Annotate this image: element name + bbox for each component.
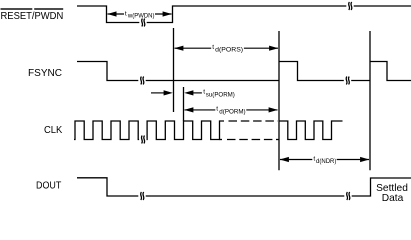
wire CLK dashed bottom: [227, 139, 276, 141]
wire RESET/PWDN waveform: [77, 6, 411, 23]
svg-text:d(NDR): d(NDR): [316, 158, 336, 165]
wire DOUT waveform: [77, 178, 411, 196]
break on FSYNC low line right: [344, 77, 351, 85]
svg-text:su(PORM): su(PORM): [206, 91, 235, 98]
break on RESET high line right: [346, 2, 353, 10]
break on CLK bottom line: [139, 136, 146, 144]
svg-text:w(PWDN): w(PWDN): [127, 12, 155, 19]
node marker A vertical line x=173.5: [173, 28, 175, 112]
wire CLK bottom solid before marker C: [276, 139, 279, 141]
svg-text:DOUT: DOUT: [36, 180, 62, 192]
svg-text:FSYNC: FSYNC: [28, 67, 62, 79]
svg-text:t: t: [125, 10, 127, 17]
wire CLK bottom lead past rising edge: [220, 139, 223, 141]
break on DOUT low line right: [344, 192, 351, 200]
break on RESET low line: [139, 19, 146, 27]
break on DOUT low line left: [138, 192, 145, 200]
dimension td(PORM) arrow: [184, 107, 278, 112]
node marker B vertical line x=183.5: [183, 87, 185, 121]
svg-text:t: t: [216, 106, 218, 113]
dimension tsu(PORM) outside arrows: [151, 90, 202, 95]
dimension tw(PWDN) arrow: [107, 11, 172, 16]
node marker D vertical line x=370: [369, 31, 371, 170]
wire FSYNC waveform: [77, 62, 411, 81]
wire CLK solid pulses after marker C: [279, 121, 343, 140]
svg-text:RESET/PWDN: RESET/PWDN: [1, 10, 64, 22]
dimension td(PORS) arrow: [174, 46, 278, 51]
svg-text:t: t: [212, 44, 214, 51]
overline over RESET: [1, 8, 33, 9]
svg-text:Data: Data: [382, 193, 404, 204]
overline over PWDN: [34, 8, 63, 9]
svg-text:CLK: CLK: [44, 124, 62, 136]
svg-text:d(PORS): d(PORS): [215, 47, 243, 54]
wire CLK waveform solid pulses: [74, 121, 224, 140]
break on FSYNC low line left: [138, 77, 145, 85]
dimension td(NDR) arrow: [280, 157, 370, 162]
wire CLK dashed top: [229, 120, 279, 122]
svg-text:d(PORM): d(PORM): [219, 108, 245, 115]
node marker C vertical line x=279: [278, 31, 280, 170]
